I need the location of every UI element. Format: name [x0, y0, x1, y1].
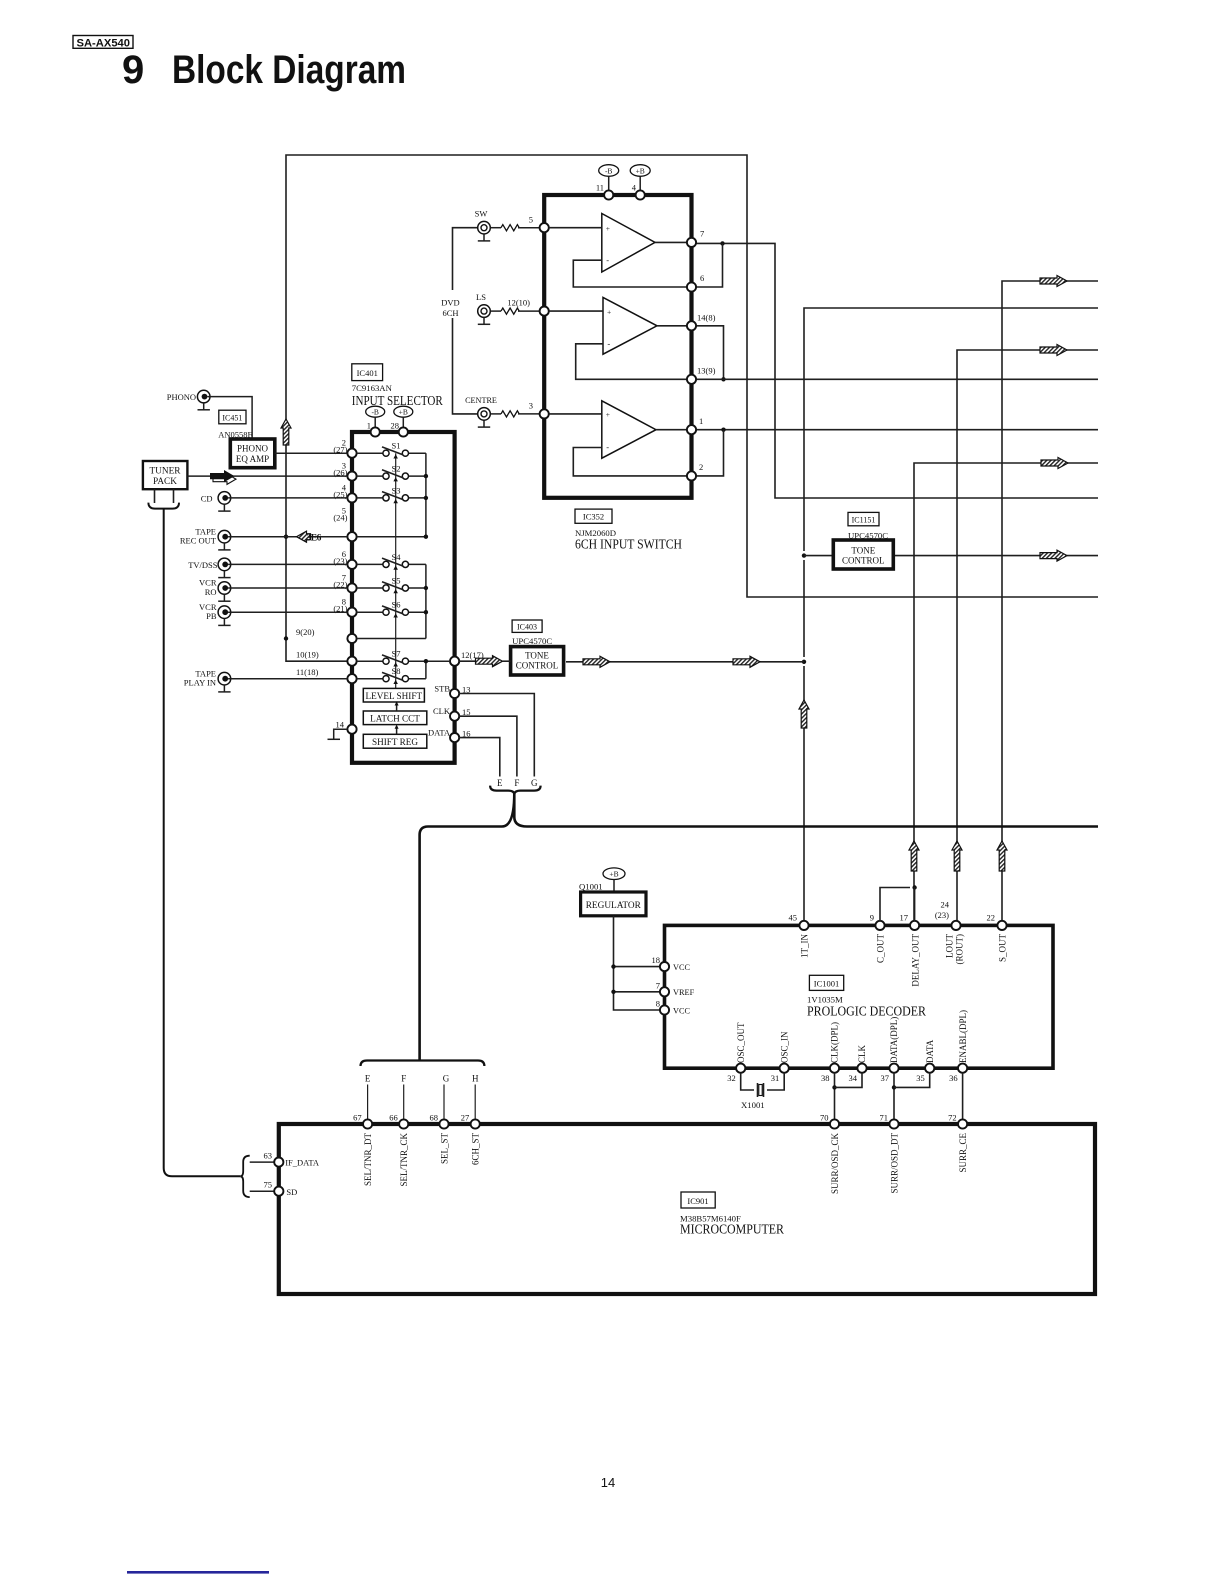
- svg-text:1: 1: [367, 421, 371, 431]
- svg-text:ENABL(DPL): ENABL(DPL): [958, 1010, 968, 1063]
- svg-text:RO: RO: [205, 587, 217, 597]
- svg-text:OSC_IN: OSC_IN: [779, 1031, 789, 1063]
- svg-text:18: 18: [652, 955, 661, 965]
- svg-text:3E6: 3E6: [307, 534, 322, 544]
- svg-text:9: 9: [122, 48, 144, 92]
- svg-text:38: 38: [821, 1073, 830, 1083]
- svg-text:6CH INPUT SWITCH: 6CH INPUT SWITCH: [575, 537, 682, 552]
- svg-text:6: 6: [700, 273, 704, 283]
- svg-text:DATA: DATA: [925, 1039, 935, 1063]
- svg-text:TV/DSS: TV/DSS: [188, 560, 218, 570]
- svg-text:DATA(DPL): DATA(DPL): [889, 1017, 899, 1063]
- svg-text:67: 67: [353, 1113, 362, 1123]
- svg-text:S4: S4: [392, 552, 402, 562]
- svg-text:TONE: TONE: [851, 545, 875, 555]
- svg-text:STB: STB: [434, 684, 450, 694]
- svg-text:F: F: [401, 1074, 406, 1084]
- svg-text:+B: +B: [636, 166, 645, 175]
- svg-text:TUNER: TUNER: [150, 466, 182, 476]
- svg-text:IC352: IC352: [583, 512, 604, 522]
- svg-text:IC401: IC401: [357, 368, 378, 378]
- svg-text:+B: +B: [399, 408, 408, 417]
- svg-text:E: E: [497, 778, 503, 788]
- svg-text:SURR/OSD_DT: SURR/OSD_DT: [889, 1133, 899, 1194]
- svg-text:11: 11: [596, 183, 604, 193]
- svg-text:S8: S8: [392, 666, 401, 676]
- svg-text:SW: SW: [475, 209, 488, 219]
- svg-text:14: 14: [336, 720, 345, 730]
- svg-text:45: 45: [789, 913, 798, 923]
- svg-text:3: 3: [529, 401, 533, 411]
- svg-text:IC1151: IC1151: [852, 516, 876, 525]
- svg-text:63: 63: [264, 1151, 273, 1161]
- svg-text:IC451: IC451: [222, 414, 242, 423]
- svg-text:24: 24: [941, 900, 950, 910]
- svg-text:S1: S1: [392, 441, 401, 451]
- svg-text:LOUT: LOUT: [945, 934, 955, 958]
- svg-text:LS: LS: [476, 292, 486, 302]
- svg-text:SEL/TNR_CK: SEL/TNR_CK: [399, 1133, 409, 1187]
- svg-text:12(10): 12(10): [507, 298, 530, 308]
- svg-text:2: 2: [699, 462, 703, 472]
- svg-text:28: 28: [391, 421, 400, 431]
- svg-text:CENTRE: CENTRE: [465, 396, 497, 405]
- svg-text:G: G: [443, 1074, 450, 1084]
- svg-text:UPC4570C: UPC4570C: [512, 636, 552, 646]
- svg-text:DATA: DATA: [428, 728, 451, 738]
- svg-text:DVD: DVD: [441, 298, 459, 308]
- svg-text:F: F: [514, 778, 519, 788]
- svg-text:PB: PB: [206, 611, 217, 621]
- svg-text:11(18): 11(18): [296, 667, 319, 677]
- svg-text:13(9): 13(9): [697, 366, 716, 376]
- svg-text:C_OUT: C_OUT: [876, 933, 886, 963]
- svg-text:-B: -B: [605, 166, 613, 175]
- svg-text:G: G: [531, 778, 538, 788]
- svg-text:-: -: [606, 442, 609, 452]
- svg-text:68: 68: [430, 1113, 439, 1123]
- svg-text:+: +: [607, 307, 611, 316]
- svg-text:CLK(DPL): CLK(DPL): [830, 1022, 840, 1063]
- svg-text:7: 7: [656, 980, 660, 990]
- svg-text:Block Diagram: Block Diagram: [172, 48, 406, 92]
- svg-text:14: 14: [601, 1475, 615, 1490]
- svg-text:7: 7: [700, 229, 704, 239]
- svg-text:6CH: 6CH: [442, 308, 458, 318]
- svg-text:36: 36: [949, 1073, 958, 1083]
- svg-text:70: 70: [820, 1113, 829, 1123]
- svg-text:PACK: PACK: [153, 477, 177, 487]
- svg-text:LATCH CCT: LATCH CCT: [370, 714, 420, 724]
- svg-text:34: 34: [849, 1073, 858, 1083]
- svg-text:OSC_OUT: OSC_OUT: [736, 1022, 746, 1063]
- svg-text:-B: -B: [371, 408, 379, 417]
- svg-text:S_OUT: S_OUT: [998, 934, 1008, 963]
- svg-text:71: 71: [880, 1113, 889, 1123]
- svg-text:22: 22: [987, 913, 996, 923]
- svg-text:7C9163AN: 7C9163AN: [352, 383, 393, 393]
- svg-text:SURR_CE: SURR_CE: [958, 1133, 968, 1173]
- svg-text:PHONO: PHONO: [167, 392, 196, 402]
- svg-text:Q1001: Q1001: [579, 882, 603, 892]
- svg-text:INPUT SELECTOR: INPUT SELECTOR: [352, 393, 443, 408]
- svg-text:66: 66: [389, 1113, 398, 1123]
- svg-text:(23): (23): [935, 910, 949, 920]
- svg-text:H: H: [472, 1074, 479, 1084]
- svg-text:X1001: X1001: [741, 1100, 765, 1110]
- svg-text:8: 8: [656, 999, 660, 1009]
- svg-text:17: 17: [900, 913, 909, 923]
- svg-text:S7: S7: [392, 649, 401, 659]
- svg-text:1: 1: [699, 416, 703, 426]
- svg-text:S5: S5: [392, 576, 401, 586]
- svg-text:REGULATOR: REGULATOR: [586, 901, 642, 911]
- svg-text:27: 27: [461, 1113, 470, 1123]
- svg-text:SURR/OSD_CK: SURR/OSD_CK: [830, 1133, 840, 1195]
- svg-text:CD: CD: [201, 493, 213, 503]
- svg-text:(ROUT): (ROUT): [955, 934, 965, 965]
- svg-text:SHIFT REG: SHIFT REG: [372, 737, 418, 747]
- svg-text:IC403: IC403: [517, 623, 537, 632]
- svg-text:32: 32: [727, 1073, 736, 1083]
- svg-text:35: 35: [916, 1073, 925, 1083]
- svg-text:5: 5: [529, 215, 533, 225]
- svg-text:E: E: [365, 1074, 371, 1084]
- svg-text:SD: SD: [286, 1187, 297, 1197]
- svg-text:S3: S3: [392, 485, 401, 495]
- svg-text:CLK: CLK: [857, 1044, 867, 1063]
- svg-text:VCC: VCC: [673, 1006, 691, 1015]
- svg-text:6CH_ST: 6CH_ST: [471, 1133, 481, 1166]
- svg-text:14(8): 14(8): [697, 313, 716, 323]
- svg-text:SEL_ST: SEL_ST: [439, 1133, 449, 1165]
- svg-text:CONTROL: CONTROL: [842, 555, 885, 565]
- svg-text:75: 75: [264, 1180, 273, 1190]
- svg-text:EQ AMP: EQ AMP: [236, 454, 269, 464]
- svg-text:MICROCOMPUTER: MICROCOMPUTER: [680, 1222, 784, 1237]
- svg-text:VREF: VREF: [673, 988, 695, 997]
- svg-text:LEVEL SHIFT: LEVEL SHIFT: [366, 691, 423, 701]
- svg-text:+B: +B: [609, 870, 618, 879]
- svg-text:S6: S6: [392, 600, 401, 610]
- svg-text:72: 72: [948, 1113, 957, 1123]
- svg-text:IF_DATA: IF_DATA: [285, 1158, 320, 1168]
- svg-text:TONE: TONE: [525, 650, 549, 660]
- svg-text:VCC: VCC: [673, 963, 691, 972]
- svg-text:31: 31: [771, 1073, 780, 1083]
- svg-text:37: 37: [881, 1073, 890, 1083]
- svg-text:9(20): 9(20): [296, 627, 315, 637]
- svg-text:+: +: [606, 224, 610, 233]
- svg-text:S2: S2: [392, 464, 401, 474]
- svg-text:+: +: [606, 410, 610, 419]
- svg-text:-: -: [607, 338, 610, 348]
- svg-text:1T_IN: 1T_IN: [800, 934, 810, 958]
- svg-text:(24): (24): [333, 513, 347, 523]
- svg-text:REC OUT: REC OUT: [180, 536, 217, 546]
- svg-text:SEL/TNR_DT: SEL/TNR_DT: [363, 1132, 373, 1186]
- svg-text:-: -: [606, 255, 609, 265]
- svg-text:PLAY IN: PLAY IN: [184, 678, 216, 688]
- svg-text:PROLOGIC DECODER: PROLOGIC DECODER: [807, 1004, 926, 1019]
- svg-text:PHONO: PHONO: [237, 443, 269, 453]
- svg-text:CONTROL: CONTROL: [516, 660, 559, 670]
- svg-text:10(19): 10(19): [296, 650, 319, 660]
- svg-text:IC1001: IC1001: [814, 979, 840, 989]
- svg-text:CLK: CLK: [433, 706, 451, 716]
- svg-text:9: 9: [870, 913, 874, 923]
- svg-text:DELAY_OUT: DELAY_OUT: [911, 934, 921, 987]
- svg-text:IC901: IC901: [687, 1196, 708, 1206]
